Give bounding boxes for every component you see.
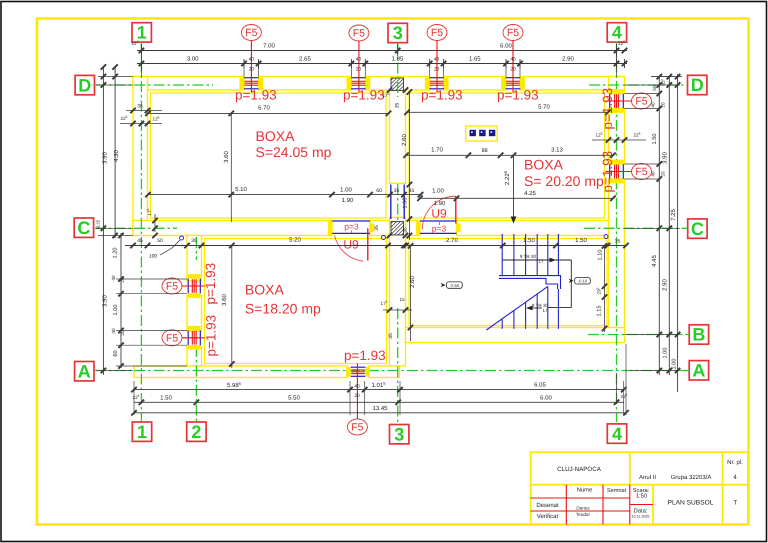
svg-text:1.90: 1.90 — [434, 200, 446, 207]
svg-text:5.20: 5.20 — [289, 237, 301, 244]
svg-text:1.15: 1.15 — [597, 306, 603, 317]
svg-text:p=1.93: p=1.93 — [203, 263, 218, 305]
svg-text:F5: F5 — [431, 27, 443, 39]
svg-text:BOXA: BOXA — [524, 157, 564, 173]
svg-text:50: 50 — [652, 85, 657, 91]
svg-text:p=1.93: p=1.93 — [343, 88, 385, 103]
svg-text:40: 40 — [510, 57, 516, 63]
svg-text:1.00: 1.00 — [113, 305, 119, 316]
svg-text:35: 35 — [137, 104, 143, 110]
svg-text:1.00: 1.00 — [663, 348, 669, 359]
svg-text:F5: F5 — [166, 332, 178, 344]
svg-text:Teodor: Teodor — [576, 512, 591, 517]
svg-text:4: 4 — [612, 23, 622, 43]
svg-text:Verificat: Verificat — [537, 513, 559, 520]
svg-text:p=1.93: p=1.93 — [204, 315, 219, 357]
svg-text:1.50: 1.50 — [575, 237, 587, 244]
svg-text:3: 3 — [393, 23, 403, 43]
svg-text:7.00: 7.00 — [263, 43, 275, 50]
svg-text:4.45: 4.45 — [651, 255, 658, 267]
svg-text:6.00: 6.00 — [500, 43, 512, 50]
svg-text:Anul II: Anul II — [639, 474, 656, 481]
svg-text:20: 20 — [356, 67, 362, 73]
svg-text:2.60: 2.60 — [409, 276, 416, 288]
svg-text:2: 2 — [191, 422, 201, 442]
svg-text:F5: F5 — [507, 27, 519, 39]
svg-text:8,25: 8,25 — [96, 219, 101, 228]
svg-text:2.90: 2.90 — [662, 279, 669, 291]
svg-text:40: 40 — [354, 383, 360, 389]
svg-text:60: 60 — [376, 188, 382, 194]
svg-text:p=1.93: p=1.93 — [421, 88, 463, 103]
svg-text:U9: U9 — [431, 207, 447, 221]
svg-text:2.70: 2.70 — [446, 237, 458, 244]
svg-text:S= 20.20 mp: S= 20.20 mp — [524, 173, 604, 189]
svg-text:1.20: 1.20 — [113, 248, 119, 259]
svg-text:3.60: 3.60 — [221, 294, 228, 306]
svg-text:1.50: 1.50 — [523, 237, 535, 244]
svg-text:T: T — [733, 500, 737, 507]
svg-text:3.90: 3.90 — [102, 152, 109, 164]
svg-text:4.25: 4.25 — [524, 190, 536, 197]
svg-text:1.65: 1.65 — [469, 56, 481, 63]
svg-text:Semnat: Semnat — [607, 488, 627, 494]
svg-text:p=3: p=3 — [432, 224, 447, 234]
svg-text:BOXA: BOXA — [256, 128, 296, 144]
svg-text:20: 20 — [434, 67, 440, 73]
svg-text:35: 35 — [615, 238, 621, 244]
svg-text:1:50: 1:50 — [636, 493, 647, 500]
svg-text:p=1.93: p=1.93 — [600, 88, 615, 130]
svg-text:1.00: 1.00 — [672, 359, 678, 370]
svg-text:p=1.93: p=1.93 — [235, 88, 277, 103]
svg-text:p=1.93: p=1.93 — [344, 348, 386, 363]
svg-text:1.00: 1.00 — [432, 188, 444, 195]
svg-text:C: C — [691, 219, 704, 239]
svg-text:3.90: 3.90 — [662, 152, 669, 164]
svg-text:1: 1 — [137, 422, 147, 442]
svg-text:20: 20 — [354, 393, 360, 399]
svg-text:35: 35 — [388, 333, 394, 339]
svg-text:45: 45 — [137, 238, 143, 244]
svg-text:CLUJ-NAPOCA: CLUJ-NAPOCA — [557, 466, 602, 473]
svg-text:7.25: 7.25 — [670, 209, 677, 221]
svg-text:3.13: 3.13 — [551, 146, 563, 153]
svg-text:-2.60: -2.60 — [450, 283, 460, 288]
svg-text:35: 35 — [402, 227, 408, 233]
svg-text:F5: F5 — [351, 422, 363, 434]
svg-text:3.60: 3.60 — [223, 151, 230, 163]
svg-text:20: 20 — [510, 67, 516, 73]
svg-text:6.05: 6.05 — [534, 382, 546, 389]
svg-text:Darius: Darius — [576, 506, 590, 511]
svg-text:35: 35 — [394, 188, 400, 194]
svg-text:35: 35 — [191, 238, 197, 244]
svg-text:3.90: 3.90 — [102, 295, 109, 307]
svg-text:1.70: 1.70 — [431, 146, 443, 153]
svg-text:20: 20 — [120, 277, 125, 283]
svg-text:40: 40 — [111, 275, 116, 281]
svg-text:F5: F5 — [166, 281, 178, 293]
svg-text:5.50: 5.50 — [288, 394, 300, 401]
svg-text:17: 17 — [538, 259, 544, 264]
svg-text:35: 35 — [395, 103, 401, 109]
svg-text:4.30: 4.30 — [113, 150, 120, 162]
svg-text:p=3: p=3 — [344, 222, 359, 232]
svg-text:D: D — [691, 75, 704, 95]
svg-text:A: A — [692, 361, 705, 381]
svg-text:1.85: 1.85 — [392, 56, 404, 63]
svg-text:40: 40 — [651, 102, 656, 108]
svg-text:2.60: 2.60 — [401, 134, 408, 146]
svg-text:1.00: 1.00 — [340, 187, 352, 194]
svg-text:100: 100 — [149, 254, 158, 260]
svg-text:17: 17 — [542, 308, 548, 313]
svg-text:6.70: 6.70 — [258, 104, 270, 111]
svg-text:50: 50 — [157, 238, 163, 244]
svg-text:D: D — [78, 75, 91, 95]
svg-text:1.50: 1.50 — [160, 394, 172, 401]
svg-text:F5: F5 — [353, 28, 365, 40]
svg-text:Nr. pl.: Nr. pl. — [727, 459, 743, 466]
svg-text:S=24.05 mp: S=24.05 mp — [256, 144, 332, 160]
svg-text:3.00: 3.00 — [187, 56, 199, 63]
svg-text:40: 40 — [356, 57, 362, 63]
svg-text:20: 20 — [249, 67, 255, 73]
svg-text:5.10: 5.10 — [235, 186, 247, 193]
svg-text:p=1.93: p=1.93 — [497, 88, 539, 103]
svg-text:Grupa 32203/A: Grupa 32203/A — [671, 474, 712, 481]
svg-text:20: 20 — [661, 171, 666, 177]
svg-text:9 TR 30: 9 TR 30 — [520, 254, 537, 259]
svg-text:40: 40 — [434, 57, 440, 63]
svg-text:1.10: 1.10 — [598, 250, 604, 261]
svg-text:40: 40 — [249, 57, 255, 63]
svg-text:PLAN SUBSOL: PLAN SUBSOL — [668, 500, 714, 507]
svg-text:2.65: 2.65 — [299, 56, 311, 63]
svg-text:B: B — [692, 325, 705, 345]
svg-text:F5: F5 — [635, 96, 647, 108]
svg-text:2.90: 2.90 — [562, 56, 574, 63]
svg-text:U9: U9 — [343, 238, 359, 252]
svg-text:20: 20 — [661, 102, 666, 108]
svg-text:5.70: 5.70 — [538, 103, 550, 110]
svg-text:Nume: Nume — [577, 488, 592, 494]
svg-text:40: 40 — [111, 328, 116, 334]
svg-text:15: 15 — [399, 297, 405, 302]
svg-text:3: 3 — [394, 424, 404, 444]
svg-text:1.90: 1.90 — [342, 197, 354, 204]
svg-text:S=18.20 mp: S=18.20 mp — [245, 301, 321, 317]
svg-text:35: 35 — [374, 225, 380, 231]
svg-text:60: 60 — [113, 350, 119, 356]
svg-text:88: 88 — [482, 148, 488, 154]
svg-text:BOXA: BOXA — [245, 282, 285, 298]
svg-text:A: A — [78, 361, 91, 381]
svg-text:6.00: 6.00 — [540, 394, 552, 401]
svg-text:1.50: 1.50 — [652, 134, 658, 145]
svg-text:10.11.2020: 10.11.2020 — [632, 514, 650, 518]
svg-text:C: C — [77, 218, 90, 238]
svg-text:F5: F5 — [635, 166, 647, 178]
svg-text:1.00: 1.00 — [403, 198, 409, 209]
svg-text:-0.10: -0.10 — [578, 279, 588, 284]
svg-text:13.45: 13.45 — [372, 405, 388, 412]
svg-text:40: 40 — [651, 171, 656, 177]
svg-text:F5: F5 — [245, 27, 257, 39]
svg-text:Desenat: Desenat — [536, 502, 559, 509]
svg-text:4: 4 — [612, 424, 622, 444]
